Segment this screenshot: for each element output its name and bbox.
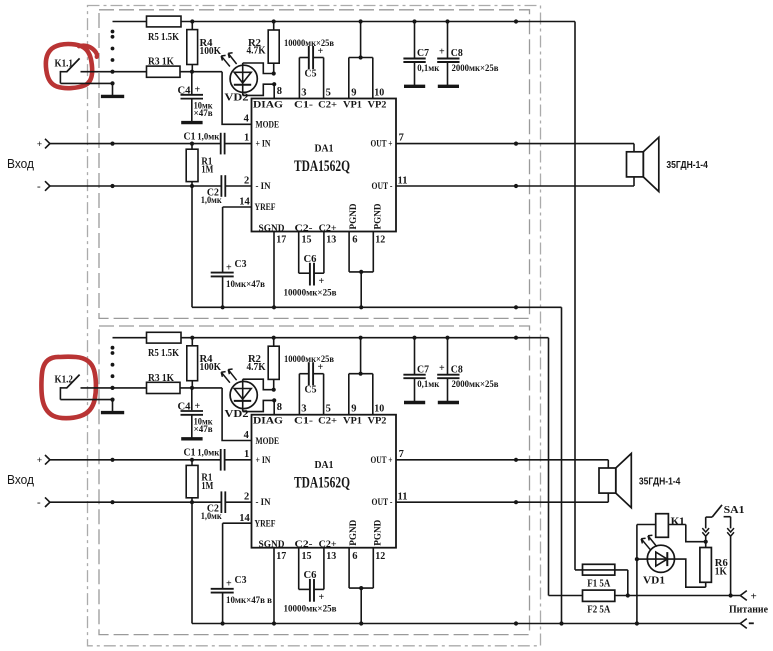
svg-text:8: 8 [277, 86, 282, 97]
op-amp IC DA1 TDA1562Q (ch2) [252, 415, 397, 548]
wire: ch1 ground rail down to −supply net [559, 307, 563, 625]
label Вход (ch2) [7, 472, 34, 487]
svg-text:17: 17 [276, 551, 286, 562]
resistor R1 1M (ch2) [186, 460, 213, 502]
svg-text:C2-: C2- [295, 224, 313, 234]
svg-text:12: 12 [375, 551, 385, 562]
svg-text:15: 15 [302, 551, 312, 562]
svg-text:10000мк×25в: 10000мк×25в [284, 288, 337, 298]
capacitor C6 10000mk x25v (ch2) [284, 548, 337, 615]
relay contact K1.2 [55, 375, 113, 400]
svg-text:SA1: SA1 [724, 505, 745, 516]
svg-text:+: + [751, 590, 757, 602]
svg-text:TDA1562Q: TDA1562Q [294, 474, 350, 491]
wire: OUT− pin 11 to speaker (ch1) [396, 175, 634, 188]
svg-text:Питание: Питание [729, 603, 768, 615]
wire: +V top rail (ch1) [113, 19, 576, 23]
wire: K1/VD1 left vertical to −supply [635, 525, 639, 626]
svg-text:2000мк×25в: 2000мк×25в [452, 64, 499, 74]
svg-text:1: 1 [244, 449, 249, 460]
wire: ground rail / −supply net (ch2) [192, 621, 740, 625]
svg-text:+: + [439, 363, 445, 374]
svg-text:C2-: C2- [295, 540, 313, 550]
svg-text:6: 6 [352, 235, 357, 246]
svg-text:F2 5A: F2 5A [587, 605, 610, 616]
svg-text:R3 1K: R3 1K [148, 373, 175, 384]
svg-text:VP2: VP2 [368, 100, 387, 110]
wire: OUT+ pin 7 to speaker (ch1) [396, 133, 634, 152]
wire: K1.1 contact to R3 (ch1) [81, 70, 147, 74]
capacitor C6 10000mk x25v (ch1) [284, 232, 337, 299]
svg-text:1M: 1M [201, 481, 213, 492]
capacitor C3 10mk x47v (ch2) [211, 575, 272, 626]
svg-text:+: + [319, 276, 325, 287]
svg-text:10: 10 [374, 404, 384, 415]
fuse F1 5A [575, 564, 628, 589]
svg-text:YREF: YREF [255, 519, 276, 529]
capacitor C2 1,0mk (ch2) [201, 491, 226, 522]
switch SA1 [702, 505, 744, 596]
input terminal + (ch1) [37, 139, 50, 150]
wire: VD1 cathode to R6 bottom [674, 559, 705, 587]
svg-text:C6: C6 [304, 254, 317, 265]
capacitor C8 2000mk x25v (ch1) [437, 19, 498, 86]
svg-text:VD2: VD2 [225, 93, 249, 104]
svg-text:+: + [226, 262, 232, 273]
svg-text:10мк×47в: 10мк×47в [226, 280, 265, 290]
svg-text:100K: 100K [200, 362, 222, 373]
svg-text:1M: 1M [201, 165, 213, 176]
outer dashed border [88, 6, 541, 646]
dotted relay link column (ch1) [111, 30, 115, 62]
resistor R3 1K (ch1) [147, 57, 181, 78]
svg-text:-: - [37, 180, 41, 192]
resistor R3 1K (ch2) [147, 373, 181, 394]
svg-text:×47в: ×47в [194, 425, 213, 435]
svg-text:DIAG: DIAG [253, 417, 284, 427]
svg-text:OUT -: OUT - [372, 182, 393, 192]
wire: K1.2 contact to R3 (ch2) [81, 386, 147, 390]
svg-text:17: 17 [276, 235, 286, 246]
svg-text:4.7K: 4.7K [247, 362, 267, 373]
svg-text:13: 13 [326, 235, 336, 246]
wire: ch2 +V rail down to fuse F2 [548, 338, 550, 596]
svg-text:+: + [318, 46, 324, 57]
svg-text:TDA1562Q: TDA1562Q [294, 158, 350, 175]
svg-text:C8: C8 [451, 48, 463, 59]
wire: VD2 anode to R2 (ch2) [243, 379, 276, 392]
speaker BA 35GDN-1-4 (ch2) [599, 454, 681, 508]
wire: input + to C1 (ch2) [50, 458, 220, 462]
svg-text:C2+: C2+ [318, 100, 337, 110]
svg-text:Вход: Вход [7, 156, 34, 171]
resistor R2 4.7K (ch1) [247, 19, 280, 73]
svg-text:+: + [195, 401, 201, 412]
svg-text:×47в: ×47в [194, 109, 213, 119]
svg-text:10000мк×25в: 10000мк×25в [284, 605, 337, 615]
svg-text:MODE: MODE [256, 121, 280, 131]
svg-text:5: 5 [326, 404, 331, 415]
input terminal − (ch2) [37, 497, 50, 509]
svg-text:+: + [439, 47, 445, 58]
wire: −input node to ground rail (ch1) [191, 186, 193, 307]
capacitor C1 1,0mk (ch1) [184, 132, 225, 155]
svg-text:+: + [319, 592, 325, 603]
red marker circle around K1.2 [41, 357, 96, 419]
svg-text:10000мк×25в: 10000мк×25в [284, 39, 334, 49]
svg-text:14: 14 [239, 197, 250, 208]
wire: PGND pins 6,12 to ground rail (ch2) [349, 548, 385, 626]
wire: +V top rail (ch2) [113, 336, 549, 340]
svg-text:C1: C1 [184, 132, 196, 143]
wire: VD2 cathode to DIAG pin 8 (ch2) [243, 398, 282, 414]
svg-text:1K: 1K [715, 567, 728, 578]
svg-text:100K: 100K [200, 46, 222, 57]
capacitor C2 1,0mk (ch1) [201, 175, 226, 206]
svg-text:13: 13 [326, 551, 336, 562]
svg-text:C2+: C2+ [318, 417, 337, 427]
svg-text:4: 4 [244, 114, 250, 125]
LED VD1 [641, 535, 674, 586]
svg-text:10: 10 [374, 87, 384, 98]
label Питание [729, 603, 768, 615]
power terminal − (Питание) [740, 619, 754, 629]
svg-text:10мк×47в в: 10мк×47в в [226, 596, 272, 606]
svg-text:35ГДН-1-4: 35ГДН-1-4 [639, 475, 681, 487]
svg-text:DIAG: DIAG [253, 100, 284, 110]
svg-text:MODE: MODE [256, 437, 280, 447]
svg-text:10000мк×25в: 10000мк×25в [284, 355, 334, 365]
wire: C2 to −IN pin 2 (ch2) [225, 492, 251, 503]
svg-text:OUT -: OUT - [372, 498, 393, 508]
svg-text:35ГДН-1-4: 35ГДН-1-4 [666, 159, 708, 171]
svg-text:8: 8 [277, 402, 282, 413]
wire: YREF pin 14 to C3 (ch1) [223, 197, 252, 273]
svg-text:C1-: C1- [294, 417, 313, 427]
svg-text:C3: C3 [235, 575, 247, 586]
wire: −input node to ground rail (ch2) [191, 502, 193, 623]
svg-text:0,1мк: 0,1мк [417, 380, 439, 390]
relay contact K1.1 [55, 58, 113, 83]
svg-text:+: + [37, 140, 42, 150]
LED VD2 (ch2) [221, 369, 257, 420]
svg-text:C5: C5 [305, 68, 317, 79]
wire: input − to C2 (ch1) [50, 184, 221, 188]
svg-text:VP1: VP1 [343, 100, 362, 110]
capacitor C8 2000mk x25v (ch2) [437, 336, 498, 403]
capacitor C1 1,0mk (ch2) [184, 448, 225, 471]
svg-text:VP1: VP1 [343, 417, 362, 427]
svg-text:7: 7 [399, 133, 404, 144]
wire: VD2 anode to R2 (ch1) [243, 63, 276, 76]
svg-text:C4: C4 [178, 402, 192, 413]
ground symbol at K1.2 [101, 398, 124, 413]
input terminal + (ch2) [37, 455, 50, 466]
svg-text:R5 1.5K: R5 1.5K [148, 348, 180, 359]
svg-text:+: + [318, 362, 324, 373]
resistor R5 1.5K (ch1) [147, 16, 182, 43]
svg-text:7: 7 [399, 449, 404, 460]
svg-text:2: 2 [244, 175, 249, 186]
svg-text:1,0мк: 1,0мк [201, 196, 222, 206]
wire: input + to C1 (ch1) [50, 142, 220, 146]
svg-text:VP2: VP2 [368, 417, 387, 427]
svg-text:PGND: PGND [349, 203, 359, 229]
svg-text:VD1: VD1 [643, 575, 665, 586]
svg-text:3: 3 [301, 87, 306, 98]
capacitor C7 0,1mk (ch2) [403, 336, 439, 403]
svg-text:15: 15 [302, 235, 312, 246]
wire: VP1/VP2 pins 9,10 to +V rail (ch2) [349, 336, 384, 415]
svg-text:3: 3 [301, 404, 306, 415]
svg-text:YREF: YREF [255, 203, 276, 213]
wire: VD2 cathode to DIAG pin 8 (ch1) [243, 82, 282, 98]
svg-text:C8: C8 [451, 364, 463, 375]
capacitor C4 10mk x47v (ch2) [178, 388, 214, 439]
resistor R6 1K [700, 542, 728, 588]
wire: SGND pin 17 to ground rail (ch2) [272, 548, 286, 626]
svg-text:C7: C7 [417, 364, 429, 375]
svg-text:6: 6 [352, 551, 357, 562]
svg-text:SGND: SGND [259, 540, 285, 550]
svg-text:+ IN: + IN [256, 456, 271, 466]
wire: C1 to +IN pin 1 (ch2) [225, 449, 252, 460]
svg-text:C5: C5 [305, 385, 317, 396]
svg-text:PGND: PGND [349, 520, 359, 546]
svg-text:C7: C7 [417, 48, 429, 59]
resistor R1 1M (ch1) [186, 144, 213, 186]
svg-text:SGND: SGND [259, 224, 285, 234]
capacitor C7 0,1mk (ch1) [403, 19, 439, 86]
svg-text:- IN: - IN [256, 498, 271, 508]
LED VD2 (ch1) [221, 53, 257, 104]
resistor R4 100K (ch2) [187, 336, 222, 388]
svg-text:C6: C6 [304, 570, 317, 581]
svg-text:+: + [37, 456, 42, 466]
svg-text:DA1: DA1 [315, 459, 334, 471]
svg-text:F1 5A: F1 5A [587, 579, 610, 590]
svg-text:11: 11 [398, 492, 408, 503]
svg-text:1,0мк: 1,0мк [197, 133, 219, 143]
wire: C2 to −IN pin 2 (ch1) [225, 175, 251, 186]
wire: +supply net (Питание +) [549, 593, 741, 597]
svg-text:1: 1 [244, 133, 249, 144]
dashed module border (channel 2) [99, 326, 530, 635]
wire: OUT− pin 11 to speaker (ch2) [396, 492, 608, 505]
svg-text:14: 14 [239, 513, 250, 524]
svg-text:-: - [37, 497, 41, 509]
power terminal + (Питание) [740, 590, 756, 602]
wire: OUT+ pin 7 to speaker (ch2) [396, 449, 608, 468]
dotted relay link column (ch2) [111, 346, 115, 378]
svg-text:VD2: VD2 [225, 409, 249, 420]
svg-text:C2+: C2+ [319, 540, 337, 550]
svg-text:9: 9 [351, 404, 356, 415]
svg-text:C3: C3 [235, 259, 247, 270]
wire: K1 coil to SA1/R6 node [686, 525, 708, 544]
red marker circle around K1.1 [46, 44, 97, 88]
wire: VD1 anode from −vertical [637, 558, 647, 560]
svg-text:C2+: C2+ [319, 224, 337, 234]
svg-text:DA1: DA1 [315, 143, 334, 155]
wire: R3 to R4/C4/MODE node (ch1) [180, 70, 222, 74]
svg-text:OUT +: OUT + [371, 140, 393, 150]
wire: input − to C2 (ch2) [50, 500, 221, 504]
svg-text:C1: C1 [184, 448, 196, 459]
svg-text:К1: К1 [671, 516, 685, 527]
wire: F1 to +supply net [626, 570, 630, 598]
svg-text:+: + [195, 85, 201, 96]
capacitor C4 10mk x47v (ch1) [178, 72, 214, 123]
dashed module border (channel 1) [99, 10, 530, 319]
fuse F2 5A [583, 590, 615, 616]
ground symbol at K1.1 [101, 81, 124, 96]
svg-text:+ IN: + IN [256, 140, 271, 150]
wire: ch1 +V rail down to fuse F1 [574, 22, 576, 570]
svg-text:- IN: - IN [256, 182, 271, 192]
svg-text:2: 2 [244, 492, 249, 503]
svg-text:2000мк×25в: 2000мк×25в [452, 380, 499, 390]
relay coil K1 [637, 514, 686, 538]
capacitor C5 10000mk x25v (ch2) [284, 355, 334, 415]
wire: node to MODE pin 4 (ch2) [222, 388, 251, 441]
wire: VP1/VP2 pins 9,10 to +V rail (ch1) [349, 19, 384, 98]
svg-text:4.7K: 4.7K [247, 46, 267, 57]
svg-text:11: 11 [398, 175, 408, 186]
svg-text:R3 1K: R3 1K [148, 57, 175, 68]
capacitor C5 10000mk x25v (ch1) [284, 39, 334, 99]
svg-text:1,0мк: 1,0мк [197, 449, 219, 459]
wire: YREF pin 14 to C3 (ch2) [223, 513, 252, 589]
svg-text:5: 5 [326, 87, 331, 98]
wire: C1 to +IN pin 1 (ch1) [225, 133, 252, 144]
IC pin name labels (ch1) [253, 100, 393, 233]
svg-text:1,0мк: 1,0мк [201, 512, 222, 522]
resistor R5 1.5K (ch2) [147, 332, 182, 359]
wire: SGND pin 17 to ground rail (ch1) [272, 232, 286, 310]
capacitor C3 10mk x47v (ch1) [211, 259, 265, 310]
svg-text:12: 12 [375, 235, 385, 246]
svg-text:C4: C4 [178, 85, 192, 96]
resistor R2 4.7K (ch2) [247, 336, 280, 390]
svg-text:4: 4 [244, 430, 250, 441]
wire: PGND pins 6,12 to ground rail (ch1) [349, 232, 385, 310]
label Вход (ch1) [7, 156, 34, 171]
input terminal − (ch1) [37, 180, 50, 192]
svg-text:OUT +: OUT + [371, 456, 393, 466]
svg-text:C1-: C1- [294, 100, 313, 110]
wire: node to MODE pin 4 (ch1) [222, 72, 251, 125]
svg-text:PGND: PGND [373, 520, 383, 546]
speaker BA 35GDN-1-4 (ch1) [627, 137, 709, 191]
svg-text:PGND: PGND [373, 203, 383, 229]
svg-text:9: 9 [351, 87, 356, 98]
svg-text:Вход: Вход [7, 472, 34, 487]
resistor R4 100K (ch1) [187, 19, 222, 71]
IC pin name labels (ch2) [253, 417, 393, 550]
svg-text:R5 1.5K: R5 1.5K [148, 32, 180, 43]
svg-text:0,1мк: 0,1мк [417, 64, 439, 74]
svg-text:+: + [226, 579, 232, 590]
op-amp IC DA1 TDA1562Q (ch1) [252, 99, 397, 232]
wire: R3 to R4/C4/MODE node (ch2) [180, 386, 222, 390]
wire: ground rail (ch1) [192, 305, 562, 309]
